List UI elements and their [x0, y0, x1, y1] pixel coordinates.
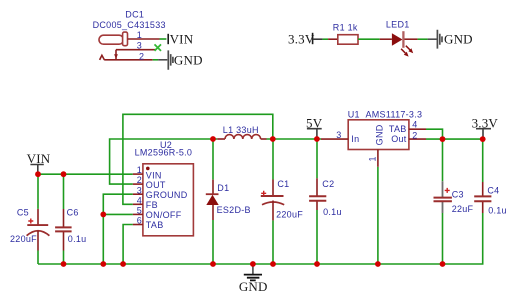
svg-text:GND: GND [374, 124, 384, 145]
svg-text:0.1u: 0.1u [68, 234, 87, 244]
svg-text:ON/OFF: ON/OFF [146, 210, 182, 220]
svg-text:C4: C4 [487, 186, 499, 196]
svg-text:C1: C1 [277, 179, 289, 189]
svg-text:VIN: VIN [170, 32, 194, 47]
svg-text:1: 1 [137, 30, 142, 40]
svg-text:OUT: OUT [146, 180, 166, 190]
svg-text:0.1u: 0.1u [323, 207, 342, 217]
svg-text:C5: C5 [17, 208, 29, 218]
svg-text:VIN: VIN [27, 151, 51, 166]
svg-text:GND: GND [444, 32, 473, 47]
svg-text:U1: U1 [348, 110, 360, 120]
svg-text:In: In [351, 134, 359, 144]
svg-text:C2: C2 [322, 179, 334, 189]
svg-text:1: 1 [137, 165, 142, 175]
svg-text:6: 6 [137, 216, 142, 226]
svg-text:0.1u: 0.1u [488, 205, 507, 215]
svg-text:22uF: 22uF [452, 204, 474, 214]
svg-text:DC1: DC1 [125, 10, 144, 20]
svg-text:4: 4 [137, 195, 142, 205]
svg-text:3: 3 [137, 40, 142, 50]
svg-text:LM2596R-5.0: LM2596R-5.0 [135, 148, 193, 158]
svg-text:GROUND: GROUND [146, 190, 188, 200]
svg-text:Out: Out [391, 134, 407, 144]
svg-text:C3: C3 [452, 189, 464, 199]
svg-text:3: 3 [137, 185, 142, 195]
svg-text:TAB: TAB [389, 124, 407, 134]
svg-text:1: 1 [368, 156, 378, 161]
svg-text:4: 4 [412, 119, 417, 129]
svg-text:AMS1117-3.3: AMS1117-3.3 [366, 110, 423, 120]
svg-text:220uF: 220uF [10, 234, 37, 244]
svg-text:2: 2 [137, 175, 142, 185]
svg-text:2: 2 [412, 130, 417, 140]
svg-text:2: 2 [139, 51, 144, 61]
svg-text:5: 5 [137, 206, 142, 216]
svg-text:R1 1k: R1 1k [333, 22, 358, 32]
svg-text:ES2D-B: ES2D-B [217, 205, 251, 215]
svg-text:VIN: VIN [146, 170, 162, 180]
svg-text:GND: GND [174, 52, 203, 67]
svg-text:C6: C6 [67, 208, 79, 218]
svg-text:DC005_C431533: DC005_C431533 [93, 20, 166, 30]
svg-text:220uF: 220uF [276, 210, 303, 220]
svg-text:FB: FB [146, 200, 158, 210]
svg-text:TAB: TAB [146, 220, 164, 230]
svg-text:GND: GND [239, 279, 268, 294]
svg-text:LED1: LED1 [386, 20, 410, 30]
svg-text:3.3V: 3.3V [288, 31, 315, 46]
svg-text:L1 33uH: L1 33uH [223, 125, 259, 135]
svg-text:3: 3 [336, 130, 341, 140]
svg-text:D1: D1 [217, 183, 229, 193]
